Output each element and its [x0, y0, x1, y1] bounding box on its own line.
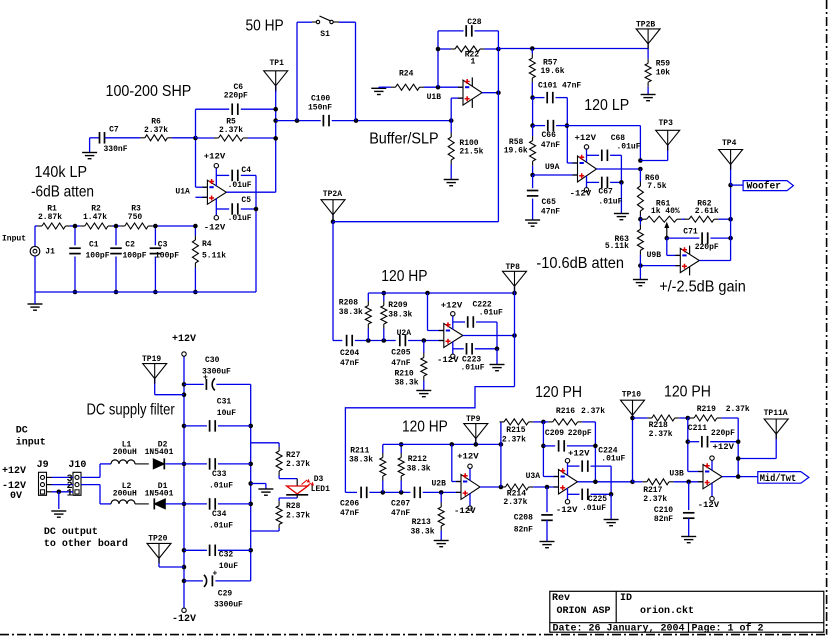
svg-text:U9B: U9B [647, 251, 662, 260]
svg-text:C28: C28 [467, 18, 482, 27]
svg-text:47nF: 47nF [391, 359, 410, 368]
svg-text:C101 47nF: C101 47nF [538, 81, 581, 90]
svg-text:U1B: U1B [427, 93, 442, 102]
svg-text:220pF: 220pF [224, 91, 248, 100]
svg-text:C210: C210 [654, 506, 673, 515]
svg-text:R217: R217 [643, 486, 662, 495]
svg-text:38.3k: 38.3k [407, 464, 431, 473]
svg-text:R209: R209 [388, 301, 407, 310]
svg-text:orion.ckt: orion.ckt [640, 605, 694, 617]
svg-text:220pF: 220pF [711, 429, 735, 438]
svg-text:1: 1 [67, 488, 73, 499]
svg-text:R218: R218 [649, 421, 668, 430]
svg-text:21.5k: 21.5k [459, 148, 483, 157]
svg-text:2.37k: 2.37k [581, 407, 605, 416]
svg-text:-12V: -12V [698, 501, 720, 510]
svg-text:+12V: +12V [713, 443, 735, 452]
svg-text:to other board: to other board [44, 538, 128, 550]
svg-text:Input: Input [2, 235, 26, 244]
svg-text:47nF: 47nF [391, 509, 410, 518]
svg-text:19.6k: 19.6k [504, 146, 528, 155]
svg-text:R219: R219 [697, 405, 716, 414]
svg-text:U3A: U3A [526, 472, 541, 481]
svg-text:5.11k: 5.11k [202, 252, 226, 261]
svg-text:-12V: -12V [437, 356, 459, 365]
svg-text:120 HP: 120 HP [402, 419, 448, 436]
svg-text:C211: C211 [688, 424, 707, 433]
svg-text:R27: R27 [286, 451, 301, 460]
svg-text:100pF: 100pF [86, 252, 110, 261]
svg-text:120 PH: 120 PH [664, 383, 711, 400]
svg-text:5.11k: 5.11k [605, 242, 629, 251]
svg-text:2.61k: 2.61k [695, 207, 719, 216]
svg-text:TP1: TP1 [270, 59, 285, 68]
svg-text:Woofer: Woofer [747, 181, 782, 193]
svg-text:C32: C32 [219, 551, 234, 560]
svg-text:47nF: 47nF [541, 207, 560, 216]
svg-text:C4: C4 [241, 166, 251, 175]
svg-text:82nF: 82nF [654, 515, 673, 524]
svg-text:120 HP: 120 HP [381, 268, 427, 285]
svg-text:J9: J9 [37, 460, 49, 471]
svg-text:C66: C66 [542, 131, 557, 140]
svg-text:-12V: -12V [172, 614, 196, 625]
svg-text:100-200 SHP: 100-200 SHP [106, 83, 192, 100]
svg-text:1: 1 [471, 57, 476, 66]
svg-text:C205: C205 [391, 349, 410, 358]
svg-text:LED1: LED1 [311, 485, 330, 494]
svg-text:150nF: 150nF [308, 103, 332, 112]
svg-text:2.37k: 2.37k [643, 495, 667, 504]
svg-text:C5: C5 [241, 196, 251, 205]
svg-text:2.37k: 2.37k [219, 126, 243, 135]
svg-text:C30: C30 [205, 356, 220, 365]
svg-text:38.3k: 38.3k [388, 310, 412, 319]
svg-text:C206: C206 [340, 500, 359, 509]
svg-text:DC supply filter: DC supply filter [87, 402, 176, 419]
svg-text:TP4: TP4 [722, 139, 737, 148]
svg-text:38.3k: 38.3k [339, 308, 363, 317]
svg-text:TP2A: TP2A [323, 190, 342, 199]
svg-text:2.37k: 2.37k [286, 512, 310, 521]
svg-text:220pF: 220pF [568, 429, 592, 438]
svg-text:R24: R24 [399, 70, 414, 79]
svg-text:.01uF: .01uF [601, 455, 625, 464]
svg-text:C65: C65 [542, 198, 557, 207]
svg-text:2.87k: 2.87k [38, 213, 62, 222]
svg-text:ORION ASP: ORION ASP [557, 606, 611, 617]
svg-text:82nF: 82nF [514, 525, 533, 534]
svg-text:330nF: 330nF [104, 145, 128, 154]
svg-text:-6dB atten: -6dB atten [31, 184, 94, 201]
svg-text:C225: C225 [588, 495, 607, 504]
svg-text:+/-2.5dB gain: +/-2.5dB gain [659, 278, 746, 295]
svg-text:TP3: TP3 [659, 119, 674, 128]
svg-text:2.37k: 2.37k [649, 430, 673, 439]
svg-text:10uF: 10uF [219, 562, 238, 571]
svg-text:-12V: -12V [454, 507, 476, 516]
svg-text:1.47k: 1.47k [83, 213, 107, 222]
svg-text:R59: R59 [656, 60, 671, 69]
svg-text:C29: C29 [218, 589, 233, 598]
svg-text:2.37k: 2.37k [286, 460, 310, 469]
svg-text:200uH: 200uH [113, 489, 137, 498]
svg-text:C209: C209 [545, 429, 564, 438]
svg-text:C67: C67 [598, 187, 613, 196]
svg-text:1N5401: 1N5401 [145, 489, 174, 498]
svg-text:.01uF: .01uF [461, 364, 485, 373]
svg-text:C208: C208 [514, 514, 533, 523]
svg-text:-12V: -12V [556, 506, 578, 515]
svg-text:C7: C7 [109, 126, 119, 135]
svg-text:38.3k: 38.3k [349, 455, 373, 464]
svg-text:R210: R210 [395, 370, 414, 379]
svg-text:1k 40%: 1k 40% [651, 207, 680, 216]
svg-text:-10.6dB atten: -10.6dB atten [536, 255, 624, 272]
svg-text:.01uF: .01uF [582, 504, 606, 513]
svg-text:1N5401: 1N5401 [145, 448, 174, 457]
svg-text:C204: C204 [340, 349, 359, 358]
svg-text:J1: J1 [45, 247, 55, 256]
svg-text:C34: C34 [212, 510, 227, 519]
svg-text:U1A: U1A [175, 188, 190, 197]
svg-text:50 HP: 50 HP [246, 18, 284, 35]
svg-text:38.3k: 38.3k [395, 379, 419, 388]
svg-text:+12V: +12V [457, 452, 479, 461]
svg-text:TP19: TP19 [142, 355, 161, 364]
svg-text:.01uF: .01uF [209, 482, 233, 491]
svg-text:+12V: +12V [172, 334, 196, 345]
svg-text:ID: ID [620, 593, 632, 604]
svg-text:+12V: +12V [2, 466, 26, 477]
svg-text:R215: R215 [506, 426, 525, 435]
svg-text:.01uF: .01uF [617, 142, 641, 151]
svg-text:R212: R212 [408, 455, 427, 464]
svg-text:7.5k: 7.5k [647, 182, 666, 191]
svg-text:input: input [16, 437, 46, 449]
svg-text:100pF: 100pF [123, 252, 147, 261]
svg-text:10k: 10k [656, 69, 671, 78]
svg-text:+12V: +12V [441, 302, 463, 311]
svg-text:Date: 26 January, 2004: Date: 26 January, 2004 [553, 624, 685, 635]
svg-text:Buffer/SLP: Buffer/SLP [369, 131, 438, 148]
svg-text:C33: C33 [212, 470, 227, 479]
svg-text:R211: R211 [350, 446, 369, 455]
svg-text:120 LP: 120 LP [584, 97, 629, 114]
svg-text:220pF: 220pF [695, 243, 719, 252]
svg-text:+12V: +12V [204, 152, 226, 161]
svg-text:TP2B: TP2B [636, 21, 655, 30]
svg-text:S1: S1 [320, 30, 330, 39]
svg-text:C71: C71 [683, 228, 698, 237]
svg-text:2.37k: 2.37k [726, 405, 750, 414]
svg-text:R208: R208 [339, 299, 358, 308]
svg-text:U9A: U9A [545, 163, 560, 172]
svg-text:38.3k: 38.3k [411, 527, 435, 536]
svg-text:.01uF: .01uF [598, 198, 622, 207]
svg-text:C2: C2 [125, 241, 135, 250]
svg-text:+12V: +12V [575, 134, 597, 143]
svg-text:120 PH: 120 PH [535, 384, 582, 401]
svg-text:.01uF: .01uF [479, 309, 503, 318]
svg-text:2.37k: 2.37k [144, 126, 168, 135]
svg-text:J10: J10 [68, 460, 86, 471]
svg-text:R28: R28 [286, 502, 301, 511]
svg-text:140k LP: 140k LP [35, 164, 88, 181]
svg-text:200uH: 200uH [113, 448, 137, 457]
svg-text:+: + [213, 569, 218, 578]
svg-text:Mid/Twt: Mid/Twt [760, 473, 797, 485]
svg-text:D3: D3 [314, 475, 324, 484]
svg-text:TP20: TP20 [148, 535, 167, 544]
svg-text:TP9: TP9 [466, 415, 481, 424]
svg-text:R213: R213 [412, 518, 431, 527]
svg-text:.01uF: .01uF [209, 522, 233, 531]
svg-text:U3B: U3B [669, 470, 684, 479]
svg-text:47nF: 47nF [541, 141, 560, 150]
svg-text:U2B: U2B [432, 480, 447, 489]
svg-text:2.37k: 2.37k [503, 498, 527, 507]
svg-text:3300uF: 3300uF [214, 601, 243, 610]
svg-text:R57: R57 [543, 58, 558, 67]
svg-text:10uF: 10uF [217, 409, 236, 418]
svg-text:47nF: 47nF [340, 359, 359, 368]
svg-text:TP8: TP8 [506, 263, 521, 272]
svg-text:TP10: TP10 [622, 391, 641, 400]
svg-text:+12V: +12V [568, 450, 590, 459]
svg-text:.01uF: .01uF [228, 214, 252, 223]
svg-text:DC output: DC output [44, 527, 98, 538]
svg-text:100pF: 100pF [155, 252, 179, 261]
svg-text:C31: C31 [217, 398, 232, 407]
svg-text:-12V: -12V [570, 190, 592, 199]
svg-text:-12V: -12V [204, 224, 226, 233]
svg-text:750: 750 [128, 213, 143, 222]
svg-text:R4: R4 [202, 240, 212, 249]
svg-text:U2A: U2A [397, 329, 412, 338]
svg-text:0V: 0V [10, 491, 22, 502]
svg-text:3300uF: 3300uF [202, 367, 231, 376]
svg-text:Page: 1 of 2: Page: 1 of 2 [692, 623, 764, 635]
svg-text:2.37k: 2.37k [502, 436, 526, 445]
svg-text:DC: DC [16, 426, 28, 437]
svg-text:Rev: Rev [552, 593, 570, 604]
svg-text:47nF: 47nF [340, 509, 359, 518]
svg-text:C3: C3 [158, 241, 168, 250]
svg-text:.01uF: .01uF [228, 181, 252, 190]
svg-text:R216: R216 [556, 407, 575, 416]
svg-text:TP11A: TP11A [764, 409, 788, 418]
svg-text:19.6k: 19.6k [541, 67, 565, 76]
svg-text:C207: C207 [391, 500, 410, 509]
svg-text:C1: C1 [89, 241, 99, 250]
